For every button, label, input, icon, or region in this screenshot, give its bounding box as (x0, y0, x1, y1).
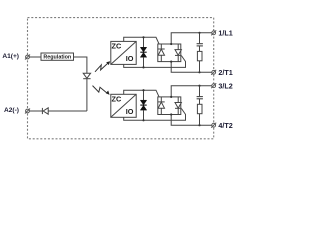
svg-text:1/L1: 1/L1 (218, 29, 232, 38)
svg-text:A2(-): A2(-) (4, 107, 19, 114)
svg-text:2/T1: 2/T1 (218, 68, 232, 77)
svg-text:3/L2: 3/L2 (218, 81, 232, 90)
svg-text:A1(+): A1(+) (2, 53, 19, 60)
svg-text:Regulation: Regulation (43, 54, 71, 60)
svg-text:4/T2: 4/T2 (218, 121, 232, 130)
